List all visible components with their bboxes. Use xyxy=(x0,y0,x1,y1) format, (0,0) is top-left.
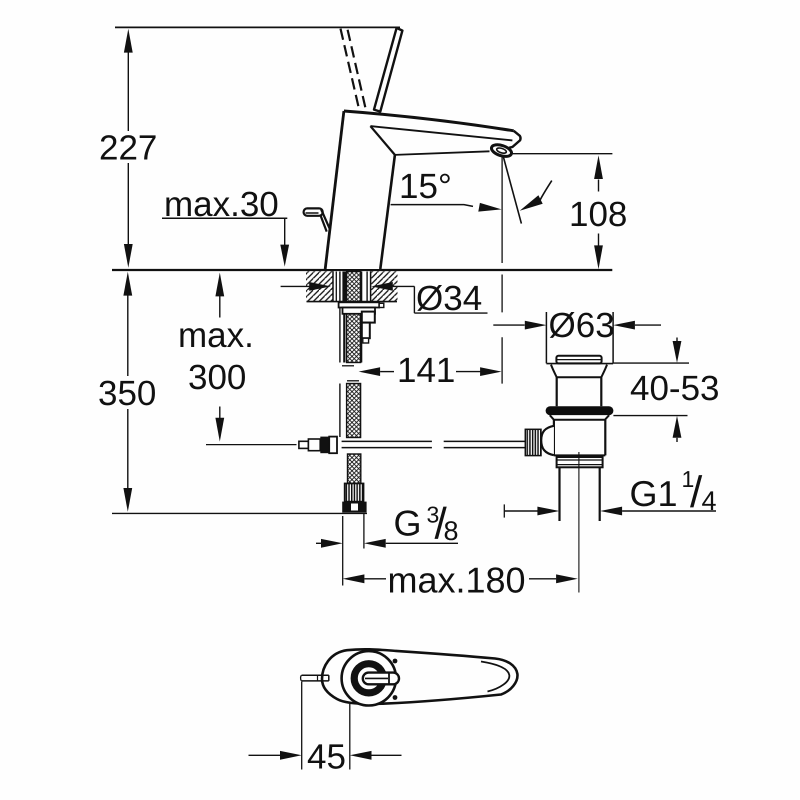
svg-text:Ø63: Ø63 xyxy=(549,306,615,345)
svg-text:227: 227 xyxy=(99,129,157,168)
svg-text:G: G xyxy=(394,502,422,543)
svg-text:15°: 15° xyxy=(399,167,452,206)
svg-text:G1: G1 xyxy=(630,473,678,514)
svg-text:Ø34: Ø34 xyxy=(416,279,482,318)
svg-text:max.180: max.180 xyxy=(388,559,526,600)
svg-text:max.: max. xyxy=(178,316,254,355)
svg-text:300: 300 xyxy=(188,358,246,397)
svg-text:108: 108 xyxy=(569,195,627,234)
svg-text:40-53: 40-53 xyxy=(630,369,720,408)
svg-text:4: 4 xyxy=(702,486,717,516)
svg-text:141: 141 xyxy=(397,351,455,390)
svg-text:350: 350 xyxy=(98,374,156,413)
svg-text:8: 8 xyxy=(444,516,459,546)
svg-text:45: 45 xyxy=(307,737,346,776)
